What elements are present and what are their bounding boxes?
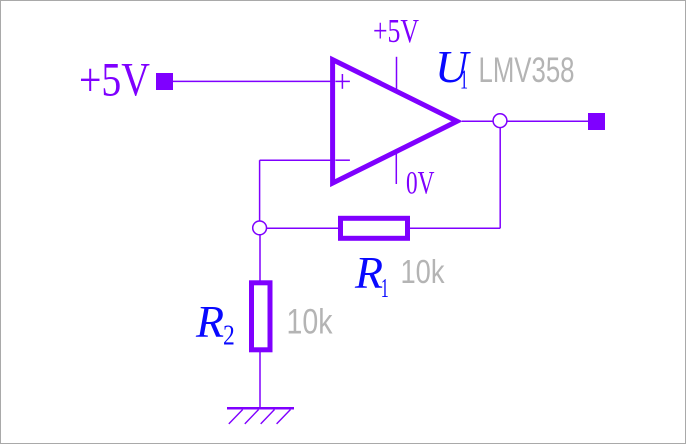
wire output node down to feedback	[499, 127, 501, 228]
svg-text:+5V: +5V	[79, 54, 150, 107]
resistor R1 body	[341, 218, 408, 238]
ground hatch lines	[229, 410, 291, 424]
power pin bottom (0V)	[395, 154, 397, 185]
svg-text:1: 1	[381, 273, 389, 303]
wire node A down to R2	[259, 235, 261, 282]
wire output node to output terminal	[507, 120, 588, 122]
svg-text:+5V: +5V	[373, 13, 419, 50]
svg-text:R: R	[354, 247, 383, 298]
terminal square left (+5V source)	[156, 73, 173, 90]
resistor R2 body	[252, 283, 271, 350]
svg-text:R: R	[195, 296, 224, 347]
svg-text:2: 2	[223, 320, 235, 351]
svg-text:10k: 10k	[401, 253, 445, 290]
wire R1 right lead	[410, 227, 500, 229]
terminal square right (output)	[588, 113, 605, 130]
output node circle	[493, 114, 507, 128]
ground bar	[227, 407, 294, 410]
svg-text:0V: 0V	[406, 165, 435, 201]
wire vertical from inverting input down to node A	[259, 160, 261, 228]
plus mark non-inverting input	[335, 74, 350, 89]
svg-text:10k: 10k	[287, 303, 333, 342]
power pin top (+5V)	[396, 57, 398, 90]
wire R1 left lead to node A	[260, 227, 339, 229]
wire R2 to ground	[259, 352, 261, 408]
node A circle (feedback junction)	[253, 221, 267, 235]
op-amp U1 triangle body	[333, 60, 457, 184]
wire from +5V terminal to op-amp non-inverting input	[173, 80, 332, 82]
svg-text:LMV358: LMV358	[479, 50, 575, 90]
minus mark inverting input	[335, 159, 350, 161]
wire feedback node to inverting input	[260, 159, 332, 161]
wire op-amp output to output node	[462, 120, 494, 122]
svg-text:1: 1	[460, 65, 468, 95]
